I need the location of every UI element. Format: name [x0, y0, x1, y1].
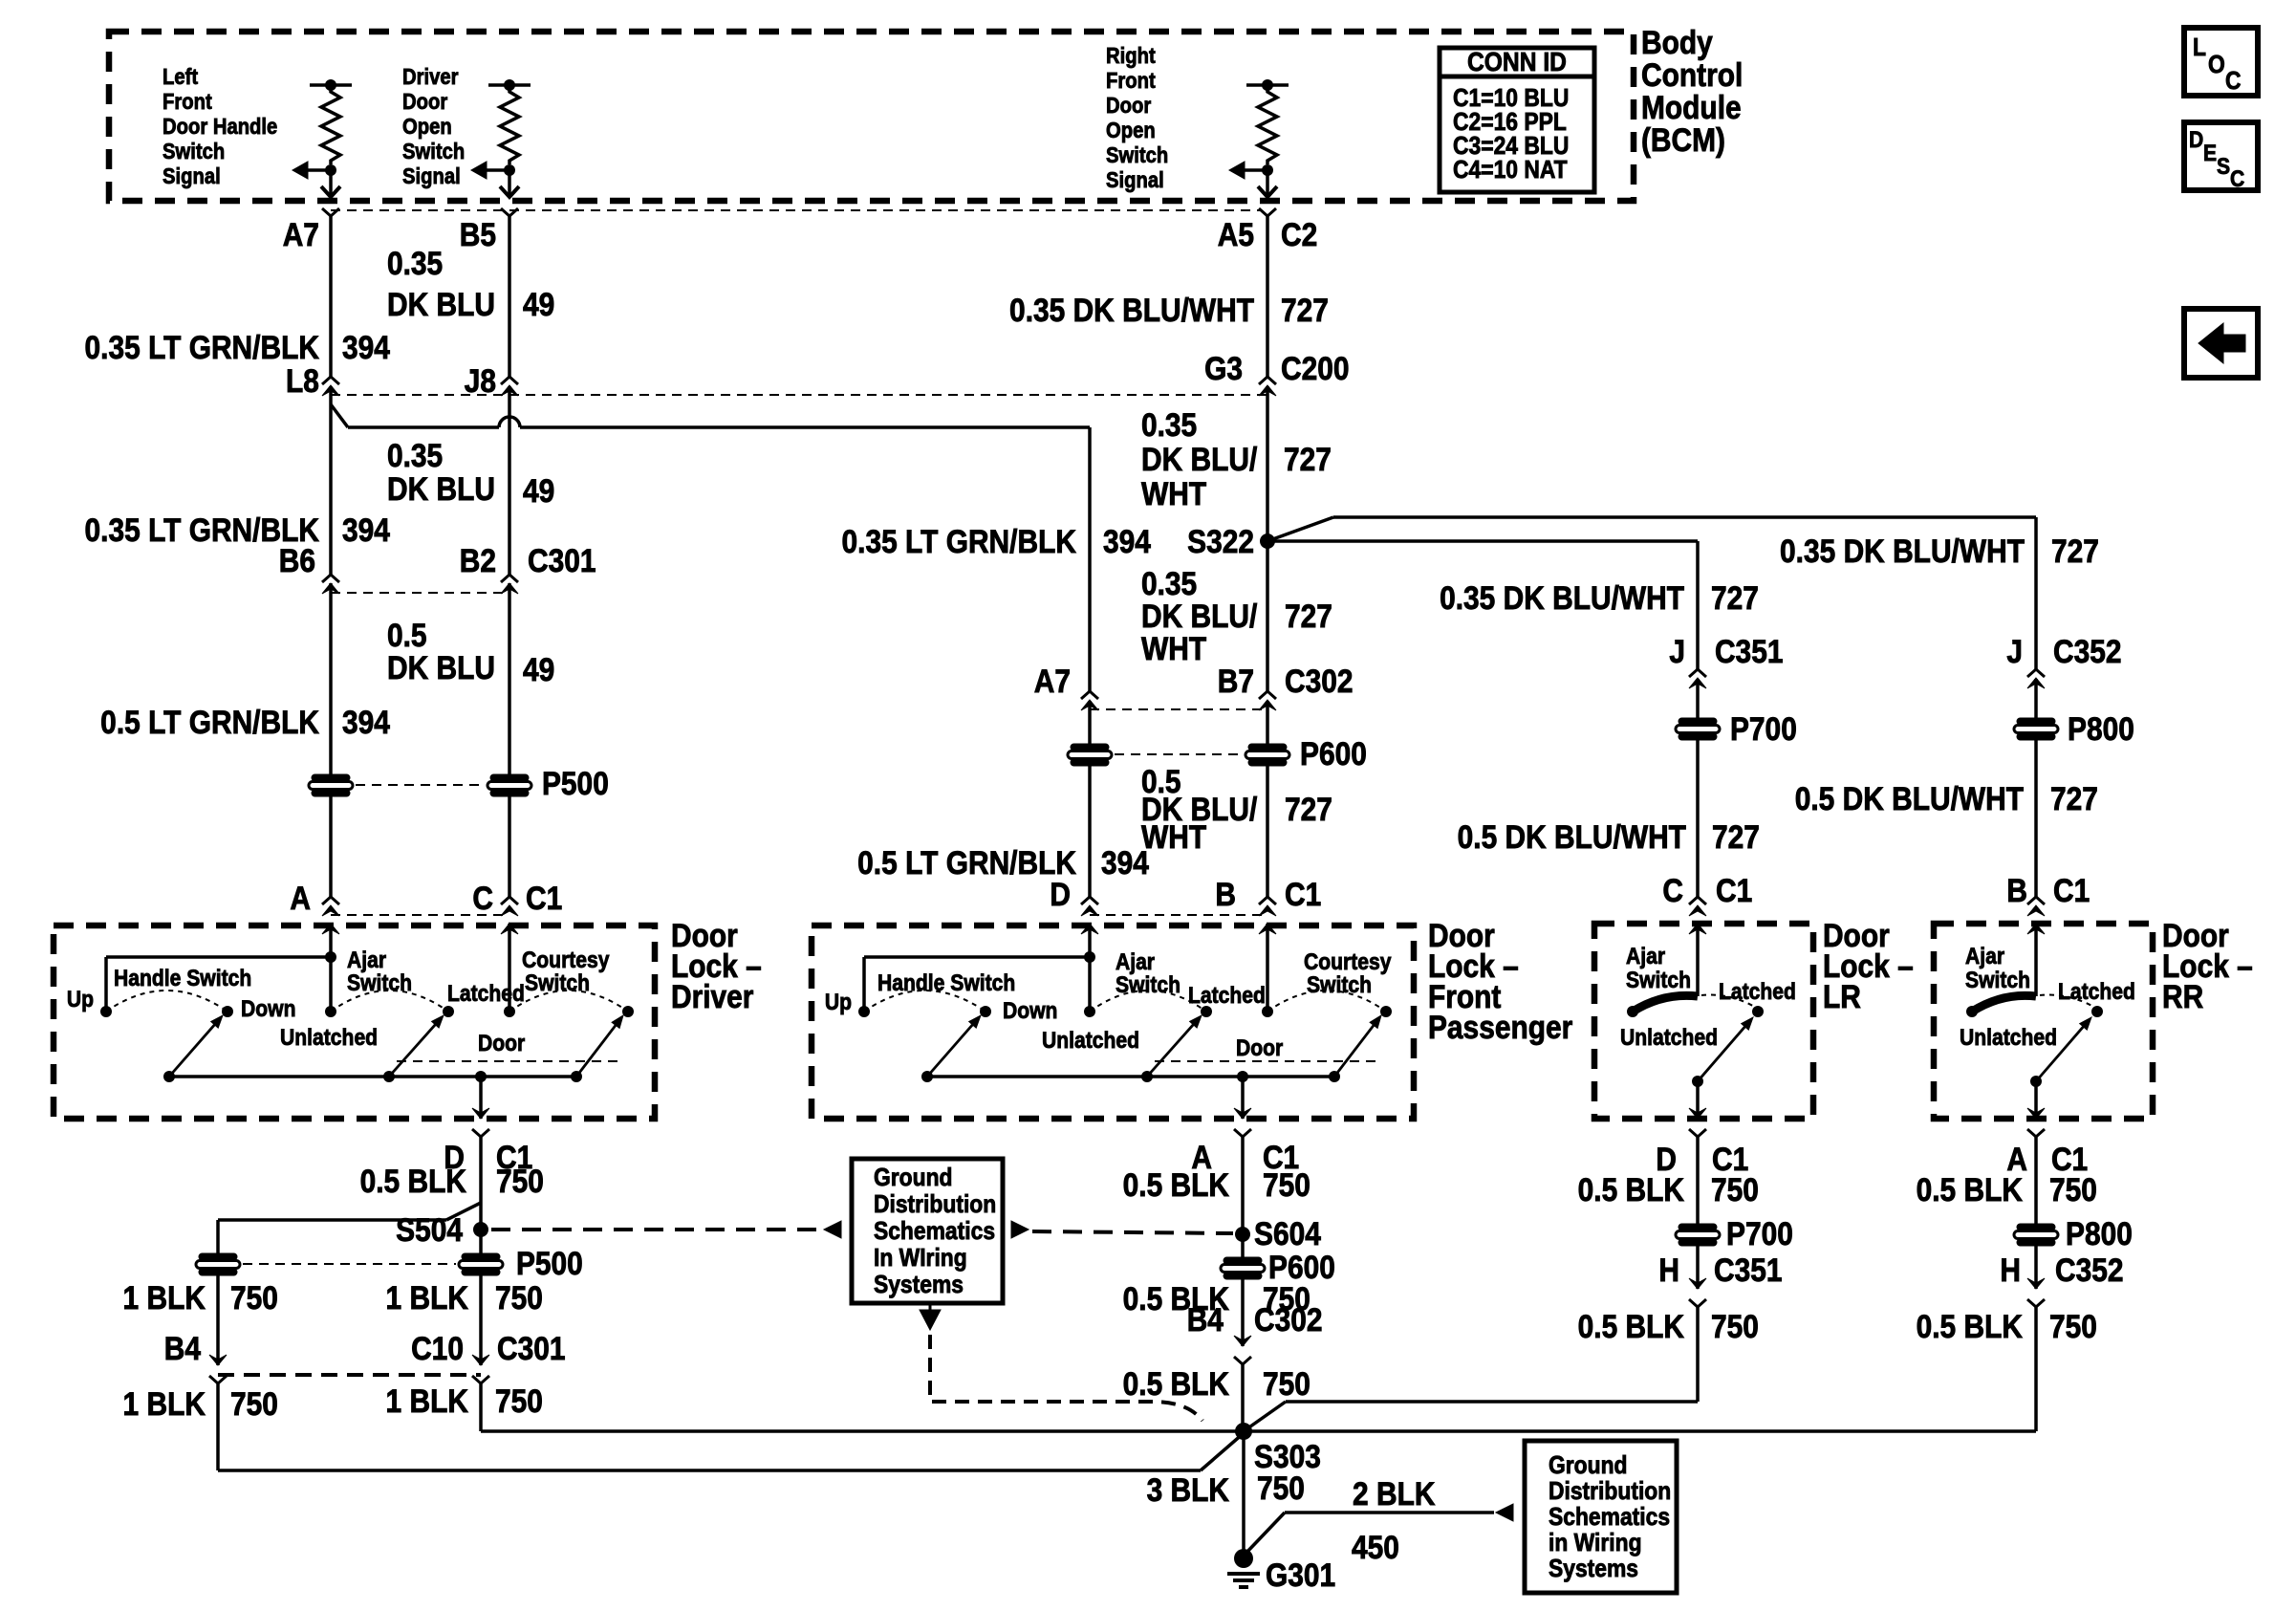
svg-text:Latched: Latched: [447, 981, 525, 1007]
svg-text:Unlatched: Unlatched: [280, 1025, 378, 1051]
svg-text:P800: P800: [2068, 710, 2134, 747]
svg-text:Latched: Latched: [1188, 983, 1266, 1009]
connector G3 / C200: [1259, 377, 1276, 384]
svg-text:DK BLU/: DK BLU/: [1141, 598, 1257, 634]
wire 0.35 LT GRN/BLK 394 from A7: [329, 216, 333, 377]
svg-text:0.5 LT GRN/BLK: 0.5 LT GRN/BLK: [857, 844, 1076, 881]
grommet P500 left: [309, 774, 353, 796]
svg-text:Driver: Driver: [402, 64, 459, 90]
svg-text:In WIring: In WIring: [874, 1245, 967, 1273]
svg-text:750: 750: [2049, 1308, 2097, 1344]
svg-text:Up: Up: [825, 990, 852, 1015]
svg-text:C: C: [2230, 166, 2244, 192]
svg-text:B4: B4: [164, 1330, 201, 1366]
passenger handle switch feed wire: [862, 957, 866, 1012]
svg-text:Switch: Switch: [525, 970, 590, 996]
wire RR feed down from S322 branch: [2034, 517, 2038, 669]
grommet P500 right with label: [487, 774, 531, 796]
svg-text:Schematics: Schematics: [1549, 1504, 1670, 1532]
svg-text:C351: C351: [1714, 1252, 1783, 1288]
svg-text:750: 750: [230, 1279, 278, 1316]
svg-text:394: 394: [342, 704, 390, 740]
passenger common bus: [927, 1075, 1334, 1078]
svg-text:49: 49: [523, 472, 554, 509]
svg-text:Ajar: Ajar: [1626, 944, 1665, 969]
svg-text:0.35: 0.35: [1141, 406, 1197, 443]
grommet P600 left: [1068, 744, 1112, 766]
svg-text:Schematics: Schematics: [874, 1218, 995, 1246]
splice S504: [479, 1203, 483, 1254]
passenger courtesy switch blade: [1334, 1025, 1374, 1077]
svg-text:Ajar: Ajar: [1116, 949, 1155, 975]
svg-text:C302: C302: [1254, 1301, 1323, 1338]
grommet P700 lower with label: [1676, 1224, 1720, 1246]
svg-text:1 BLK: 1 BLK: [386, 1382, 468, 1419]
grommet P500 lower left: [196, 1253, 240, 1275]
svg-text:B7: B7: [1218, 663, 1254, 699]
svg-text:S: S: [2217, 154, 2230, 180]
svg-text:0.35 LT GRN/BLK: 0.35 LT GRN/BLK: [842, 523, 1076, 559]
wire W2 0.35 DK BLU 49 from B5: [508, 216, 511, 377]
svg-text:Latched: Latched: [1719, 979, 1796, 1005]
passenger ajar switch contacts and arc: [1084, 1006, 1095, 1017]
svg-text:in Wiring: in Wiring: [1549, 1530, 1642, 1557]
passenger courtesy switch contacts and arc: [1262, 1006, 1273, 1017]
wire to P700 upper: [1696, 679, 1700, 719]
wire jog diagonal from W1 to horizontal run: [331, 404, 348, 427]
svg-text:C200: C200: [1281, 350, 1350, 386]
svg-text:Unlatched: Unlatched: [1960, 1025, 2057, 1051]
Door Lock Front Passenger dashed box: [812, 925, 1414, 1119]
connector C2 boundary thin dashed line: [331, 209, 1260, 211]
passenger ajar wire inside box: [1088, 924, 1092, 1012]
wire H to S303 bus: [2034, 1307, 2038, 1431]
driver courtesy switch blade: [576, 1025, 616, 1077]
svg-text:RR: RR: [2162, 978, 2203, 1014]
passenger ajar switch blade: [1147, 1025, 1193, 1077]
connector C200 boundary thin dashed line: [331, 394, 1267, 396]
svg-text:A5: A5: [1218, 216, 1254, 252]
driver ground exit wire: [479, 1077, 483, 1119]
wire to P800 upper: [2034, 679, 2038, 719]
svg-text:Switch: Switch: [1626, 968, 1691, 993]
svg-text:Door: Door: [1236, 1035, 1283, 1061]
connector pin A driver box: [322, 897, 339, 904]
svg-text:Distribution: Distribution: [874, 1191, 996, 1219]
svg-text:E: E: [2203, 141, 2217, 166]
svg-text:B5: B5: [460, 216, 496, 252]
svg-text:Front: Front: [1106, 68, 1156, 94]
svg-text:WHT: WHT: [1141, 818, 1207, 855]
splice S322: [1260, 533, 1275, 549]
svg-text:750: 750: [495, 1382, 543, 1419]
driver ajar switch contacts and arc: [325, 1006, 336, 1017]
wire W4 to P600: [1266, 701, 1269, 745]
grommet P600 lower with label: [1221, 1257, 1265, 1279]
splice S303: [1235, 1423, 1252, 1440]
svg-text:H: H: [1658, 1252, 1679, 1288]
passenger ground exit wire: [1241, 1077, 1245, 1119]
svg-text:0.5 BLK: 0.5 BLK: [1578, 1171, 1684, 1208]
svg-text:WHT: WHT: [1141, 475, 1207, 512]
wire horizontal run to front passenger door (0.35 LT GRN/BLK): [348, 425, 499, 429]
svg-text:C10: C10: [411, 1330, 464, 1366]
svg-text:1 BLK: 1 BLK: [123, 1385, 206, 1422]
svg-text:P500: P500: [542, 765, 609, 801]
LR ground exit wire: [1696, 1081, 1700, 1119]
wire P800 to H connector: [2034, 1245, 2038, 1289]
svg-text:0.5: 0.5: [387, 617, 427, 653]
P600 thin dashed tie line: [1115, 753, 1243, 755]
connector J8 at C200: [501, 377, 518, 384]
svg-text:LR: LR: [1823, 978, 1861, 1014]
svg-text:0.35 LT GRN/BLK: 0.35 LT GRN/BLK: [85, 329, 319, 365]
LR ground wire to P700: [1696, 1137, 1700, 1225]
svg-text:394: 394: [342, 512, 390, 548]
svg-text:0.5 BLK: 0.5 BLK: [1917, 1171, 2023, 1208]
svg-text:C1: C1: [1716, 872, 1752, 908]
svg-text:L: L: [2193, 34, 2206, 62]
svg-text:P700: P700: [1730, 710, 1797, 747]
svg-text:Latched: Latched: [2058, 979, 2135, 1005]
svg-text:1 BLK: 1 BLK: [386, 1279, 468, 1316]
wire right C10 to S303 bus: [479, 1383, 483, 1431]
svg-text:0.5 BLK: 0.5 BLK: [1917, 1308, 2023, 1344]
svg-text:DK BLU: DK BLU: [387, 470, 495, 507]
svg-text:WHT: WHT: [1141, 630, 1207, 666]
LOC legend box: [2184, 28, 2258, 96]
svg-text:P800: P800: [2066, 1215, 2133, 1252]
RR ground exit wire: [2034, 1081, 2038, 1119]
svg-text:Signal: Signal: [1106, 167, 1164, 193]
RR latched contact and arc: [2091, 1006, 2103, 1017]
driver handle switch blade: [169, 1025, 214, 1077]
svg-text:C1: C1: [1285, 876, 1321, 912]
driver ajar switch blade: [389, 1025, 435, 1077]
left-arrow legend box: [2184, 309, 2258, 378]
svg-text:B: B: [2006, 872, 2027, 908]
RR ajar switch closed blade: [2034, 924, 2038, 996]
svg-text:727: 727: [1712, 818, 1760, 855]
wire W4 below S322: [1266, 541, 1269, 691]
svg-text:727: 727: [1284, 441, 1332, 477]
passenger handle switch blade: [927, 1025, 972, 1077]
svg-text:Switch: Switch: [1965, 968, 2030, 993]
svg-text:Distribution: Distribution: [1549, 1478, 1671, 1506]
svg-text:Door: Door: [402, 89, 448, 115]
CONN ID table: [1440, 48, 1594, 192]
connector B4 / C302 passenger: [1234, 1336, 1251, 1346]
connector C10 / C301: [472, 1355, 489, 1365]
svg-text:Open: Open: [1106, 118, 1156, 143]
wire P700 to LR box: [1696, 739, 1700, 897]
svg-text:C: C: [1662, 872, 1683, 908]
svg-text:Systems: Systems: [874, 1272, 964, 1299]
svg-text:Right: Right: [1106, 43, 1156, 69]
svg-text:Module: Module: [1641, 89, 1742, 125]
wire W2 0.5 DK BLU to P500: [508, 583, 511, 774]
resistor switch element at x=533: [488, 83, 531, 87]
wire H to LR ground bus: [1696, 1307, 1700, 1402]
passenger ground wire to S604: [1241, 1137, 1245, 1258]
RR switch blade arrow: [2036, 1027, 2083, 1081]
BCM dashed outline box: [109, 32, 1634, 201]
svg-text:A: A: [290, 880, 311, 916]
svg-text:Unlatched: Unlatched: [1042, 1028, 1139, 1054]
2 BLK 450 branch wire: [1245, 1513, 1285, 1555]
svg-text:C1: C1: [2053, 872, 2090, 908]
svg-text:G301: G301: [1266, 1557, 1335, 1593]
svg-text:C4=10 NAT: C4=10 NAT: [1453, 157, 1568, 185]
connector pin A7 at BCM: [322, 208, 339, 216]
svg-text:C302: C302: [1285, 663, 1354, 699]
svg-text:Down: Down: [1003, 998, 1057, 1024]
wire W3 to door lock passenger D: [1088, 765, 1092, 897]
svg-text:Door: Door: [1106, 93, 1152, 119]
svg-text:A7: A7: [283, 216, 319, 252]
svg-text:C301: C301: [528, 542, 596, 578]
connector C301 boundary thin dashed line: [331, 592, 509, 594]
svg-text:L8: L8: [286, 362, 319, 399]
svg-text:DK BLU/: DK BLU/: [1141, 441, 1257, 477]
grommet P600 right with label: [1245, 744, 1289, 766]
Ground Distribution Schematics in Wiring Systems box 2: [1525, 1441, 1677, 1593]
connector C1 passenger boundary thin dashed line: [1090, 914, 1267, 916]
connector J / C352: [2027, 669, 2045, 677]
svg-text:C351: C351: [1715, 633, 1784, 669]
svg-text:DK BLU: DK BLU: [387, 286, 495, 322]
svg-text:49: 49: [523, 651, 554, 687]
grommet P700 upper with label: [1676, 718, 1720, 740]
svg-text:J8: J8: [465, 362, 496, 399]
svg-text:B6: B6: [279, 542, 315, 578]
connector pin C / C1 driver box: [501, 897, 518, 904]
svg-text:450: 450: [1352, 1529, 1399, 1565]
svg-text:750: 750: [1711, 1171, 1759, 1208]
wire branch S322 to RR door (0.35 DK BLU/WHT): [1267, 517, 1333, 541]
connector C1 driver boundary thin dashed line: [331, 914, 509, 916]
svg-text:0.5 DK BLU/WHT: 0.5 DK BLU/WHT: [1795, 780, 2025, 816]
passenger door dashed line: [1155, 1060, 1379, 1062]
wire branch S322 to LR door: [1267, 539, 1698, 543]
svg-text:0.5 DK BLU/WHT: 0.5 DK BLU/WHT: [1458, 818, 1687, 855]
passenger courtesy wire inside box: [1266, 924, 1269, 1012]
svg-text:Up: Up: [67, 987, 94, 1012]
LR switch blade arrow: [1698, 1027, 1744, 1081]
diagonal from S303 to LR RR bus: [1244, 1402, 1286, 1431]
wire S303 to G301: [1242, 1431, 1245, 1555]
svg-text:750: 750: [1711, 1308, 1759, 1344]
connector B6 at C301: [322, 575, 339, 582]
svg-text:Courtesy: Courtesy: [1304, 949, 1392, 975]
svg-text:727: 727: [1281, 292, 1329, 328]
splice S604: [1235, 1227, 1250, 1242]
driver door dashed line: [397, 1060, 621, 1062]
svg-text:Switch: Switch: [1307, 972, 1372, 998]
svg-text:Body: Body: [1641, 24, 1713, 60]
svg-text:B2: B2: [460, 542, 496, 578]
svg-text:Control: Control: [1641, 56, 1743, 93]
svg-text:Switch: Switch: [1116, 972, 1180, 998]
wire W1 segment to B6: [329, 386, 333, 575]
wire W1 to door lock driver A: [329, 795, 333, 897]
svg-text:Door: Door: [478, 1031, 525, 1056]
connector H / C351: [1689, 1278, 1706, 1289]
svg-text:750: 750: [496, 1163, 544, 1199]
connector J / C351: [1689, 669, 1706, 677]
svg-text:0.35: 0.35: [387, 437, 443, 473]
svg-text:750: 750: [495, 1279, 543, 1316]
svg-text:Switch: Switch: [347, 970, 412, 996]
svg-text:C: C: [2225, 68, 2242, 96]
svg-text:750: 750: [230, 1385, 278, 1422]
svg-text:394: 394: [1101, 844, 1149, 881]
svg-text:727: 727: [1285, 791, 1332, 827]
svg-text:B: B: [1215, 876, 1236, 912]
wire W2 segment to B2: [508, 386, 511, 575]
wire W4 0.35 DK BLU/WHT 727 from A5: [1266, 216, 1269, 377]
wire right to C10 connector: [479, 1274, 483, 1365]
LR latched contact and arc: [1752, 1006, 1764, 1017]
svg-text:D: D: [1050, 876, 1071, 912]
DESC legend box: [2184, 122, 2258, 190]
connector pin C / C1 LR box: [1689, 897, 1706, 904]
svg-text:727: 727: [1285, 598, 1332, 634]
connector C301 lower dashed line: [218, 1373, 481, 1377]
wire B4 to S303: [1241, 1364, 1245, 1431]
driver ground wire to S504: [479, 1137, 483, 1203]
svg-text:Open: Open: [402, 114, 452, 140]
svg-text:DK BLU: DK BLU: [387, 649, 495, 686]
svg-text:Left: Left: [162, 64, 198, 90]
wire W3 down from horizontal run: [1088, 427, 1092, 691]
S604 dashed off-page link: [1011, 1221, 1029, 1238]
grommet P500 lower right with label: [459, 1253, 503, 1275]
svg-text:C352: C352: [2055, 1252, 2124, 1288]
svg-text:394: 394: [342, 329, 390, 365]
svg-text:C: C: [472, 880, 493, 916]
svg-text:Courtesy: Courtesy: [522, 947, 610, 973]
svg-text:Passenger: Passenger: [1428, 1009, 1572, 1045]
wire W4 to S322: [1266, 386, 1269, 541]
svg-text:D: D: [2189, 127, 2203, 153]
svg-text:C301: C301: [497, 1330, 566, 1366]
Door Lock LR dashed box: [1594, 924, 1813, 1119]
svg-text:0.35 DK BLU/WHT: 0.35 DK BLU/WHT: [1440, 579, 1684, 616]
svg-text:S504: S504: [396, 1211, 463, 1248]
svg-text:727: 727: [1711, 579, 1759, 616]
wire W4 to door lock passenger B: [1266, 765, 1269, 897]
svg-text:J: J: [2006, 633, 2023, 669]
branch wire to B4: [446, 1203, 481, 1220]
wire P700 to H connector: [1696, 1245, 1700, 1289]
Ground Distribution Schematics In Wiring Systems box 1: [852, 1159, 1003, 1303]
svg-text:H: H: [2000, 1252, 2021, 1288]
connector L8 at C200: [322, 377, 339, 384]
svg-text:394: 394: [1103, 523, 1151, 559]
svg-text:Handle Switch: Handle Switch: [877, 970, 1015, 996]
svg-text:Ajar: Ajar: [1965, 944, 2004, 969]
Door Lock Driver dashed box: [54, 925, 655, 1119]
connector H / C352: [2027, 1278, 2045, 1289]
svg-text:3 BLK: 3 BLK: [1147, 1471, 1229, 1508]
driver ajar wire inside box: [329, 924, 333, 1012]
svg-text:Systems: Systems: [1549, 1556, 1638, 1583]
svg-text:1 BLK: 1 BLK: [123, 1279, 206, 1316]
svg-text:2 BLK: 2 BLK: [1353, 1475, 1435, 1512]
wire P800 to RR box: [2034, 739, 2038, 897]
Door Lock RR dashed box: [1934, 924, 2153, 1119]
connector pin B / C1 passenger box: [1259, 897, 1276, 904]
svg-text:Signal: Signal: [162, 163, 221, 189]
S504 dashed off-page link: [491, 1228, 822, 1231]
connector A7 passenger: [1081, 691, 1098, 699]
svg-text:C352: C352: [2053, 633, 2122, 669]
svg-text:Switch: Switch: [162, 139, 225, 164]
svg-text:0.35: 0.35: [1141, 565, 1197, 601]
driver courtesy wire inside box: [508, 924, 511, 1012]
diagonal into S303 from left bus: [1201, 1433, 1244, 1470]
svg-text:750: 750: [1263, 1166, 1310, 1203]
connector C302 boundary thin dashed line: [1090, 708, 1267, 710]
wire left B4 to ground bus: [216, 1383, 220, 1470]
GDS box 1 down arrow: [929, 1303, 932, 1310]
svg-text:0.5 LT GRN/BLK: 0.5 LT GRN/BLK: [100, 704, 319, 740]
connector pin A5 / C2 at BCM: [1259, 208, 1276, 216]
svg-text:0.35: 0.35: [387, 245, 443, 281]
grommet P800 upper with label: [2014, 718, 2058, 740]
svg-text:B4: B4: [1187, 1301, 1224, 1338]
driver courtesy switch contacts and arc: [504, 1006, 515, 1017]
driver common bus: [169, 1075, 576, 1078]
svg-text:Driver: Driver: [671, 978, 753, 1014]
svg-text:S322: S322: [1187, 523, 1254, 559]
P500 thin dashed tie line: [356, 784, 485, 786]
connector pin B / C1 RR box: [2027, 897, 2045, 904]
driver handle switch feed wire: [104, 957, 108, 1012]
svg-text:P700: P700: [1726, 1215, 1793, 1252]
wire hop over W2: [499, 417, 520, 427]
svg-text:750: 750: [1263, 1365, 1310, 1402]
svg-text:Ajar: Ajar: [347, 947, 386, 973]
svg-text:S604: S604: [1254, 1215, 1321, 1252]
svg-text:0.35 DK BLU/WHT: 0.35 DK BLU/WHT: [1009, 292, 1254, 328]
svg-text:Switch: Switch: [402, 139, 465, 164]
svg-text:(BCM): (BCM): [1641, 121, 1725, 158]
svg-text:0.5 BLK: 0.5 BLK: [1578, 1308, 1684, 1344]
svg-text:0.5 BLK: 0.5 BLK: [1123, 1166, 1229, 1203]
connector B7 / C302: [1259, 691, 1276, 699]
svg-text:750: 750: [2049, 1171, 2097, 1208]
svg-text:P600: P600: [1300, 735, 1367, 772]
driver handle switch contacts and arc: [100, 1006, 112, 1017]
svg-text:0.5 BLK: 0.5 BLK: [360, 1163, 466, 1199]
RR ground wire to P800: [2034, 1137, 2038, 1225]
wire LR feed down from S322 branch: [1696, 541, 1700, 669]
grommet P800 lower with label: [2014, 1224, 2058, 1246]
svg-text:A7: A7: [1034, 663, 1071, 699]
wire W2 to door lock driver C: [508, 795, 511, 897]
svg-text:Switch: Switch: [1106, 142, 1168, 168]
svg-text:Signal: Signal: [402, 163, 461, 189]
wire left to B4 connector: [216, 1274, 220, 1365]
P500 lower thin dashed tie line: [243, 1263, 456, 1265]
svg-text:O: O: [2208, 52, 2225, 79]
LR ajar switch closed blade: [1696, 924, 1700, 996]
svg-text:49: 49: [523, 286, 554, 322]
svg-text:750: 750: [1257, 1469, 1305, 1506]
connector B2 / C301: [501, 575, 518, 582]
